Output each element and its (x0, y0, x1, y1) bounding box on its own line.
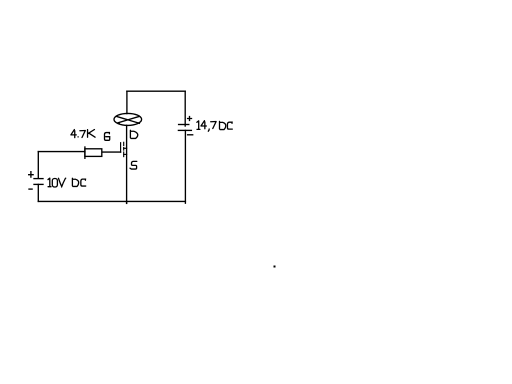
resistor R1 body (85, 149, 102, 157)
label S (130, 161, 137, 169)
lamp DS1 cross line 1 (117, 116, 140, 123)
transistor Q1 channel dash 2 (123, 148, 125, 151)
wire drain-source main vertical (126, 125, 128, 203)
transistor Q1 channel dash 3 (123, 152, 125, 157)
label 4.7K (71, 130, 95, 138)
wire right vertical to battery top (184, 91, 186, 126)
transistor Q1 source tick (124, 153, 127, 155)
label D (130, 130, 137, 138)
lamp DS1 ellipse (114, 113, 142, 125)
battery V2 bottom plate (178, 129, 191, 131)
wire lamp top vertical (126, 91, 128, 113)
wire bottom horizontal (38, 200, 185, 202)
wire left vertical to battery V1 (37, 152, 39, 178)
battery V1 bottom plate (34, 183, 43, 185)
label 14,7DC (197, 121, 232, 132)
resistor R1 left edge overshoot (84, 147, 86, 158)
transistor Q1 channel dash 1 (123, 142, 125, 145)
wire gate lead (103, 151, 121, 153)
wire battery V1 bottom lead (37, 184, 39, 201)
transistor Q1 gate plate (120, 143, 122, 153)
stray dot (274, 266, 276, 268)
wire resistor left lead (38, 151, 85, 153)
battery V2 plus sign (188, 117, 192, 121)
battery V1 top plate (34, 178, 43, 180)
transistor Q1 drain tick (124, 147, 127, 149)
wire bottom overshoot center (126, 201, 128, 203)
battery V1 minus sign (29, 188, 32, 190)
label G (105, 133, 110, 141)
lamp rim junction blobs (118, 123, 120, 125)
battery V2 minus sign (188, 134, 193, 136)
battery V2 top plate (179, 124, 189, 126)
lamp DS1 cross line 2 (118, 116, 140, 123)
wire right vertical battery V2 to bottom (184, 130, 186, 203)
battery V1 plus sign (29, 172, 33, 177)
wire top horizontal (127, 90, 185, 92)
label 10V DC (48, 178, 86, 187)
